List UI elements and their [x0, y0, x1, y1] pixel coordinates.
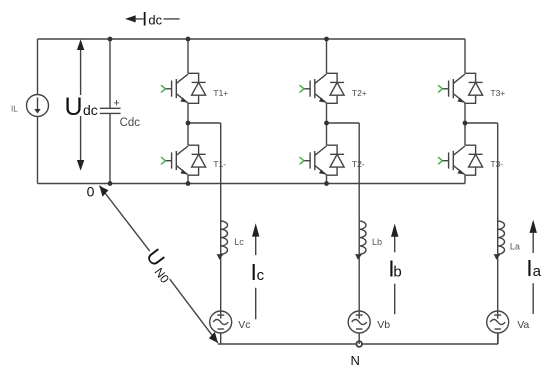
svg-text:T1+: T1+	[213, 88, 228, 98]
svg-text:T2+: T2+	[352, 88, 367, 98]
svg-text:La: La	[510, 241, 520, 251]
svg-text:Lc: Lc	[234, 237, 244, 247]
svg-text:T3+: T3+	[490, 88, 505, 98]
svg-text:0: 0	[87, 184, 95, 200]
svg-text:c: c	[257, 267, 265, 284]
svg-text:dc: dc	[148, 13, 162, 28]
svg-text:dc: dc	[83, 102, 98, 118]
svg-text:b: b	[393, 264, 401, 281]
svg-text:Lb: Lb	[372, 237, 382, 247]
svg-text:a: a	[533, 263, 542, 280]
svg-text:Vc: Vc	[238, 319, 250, 331]
svg-text:Va: Va	[517, 319, 529, 331]
svg-text:U: U	[65, 93, 83, 121]
svg-text:Vb: Vb	[377, 319, 390, 331]
svg-text:N: N	[351, 353, 360, 368]
svg-text:+: +	[113, 97, 119, 109]
svg-text:I: I	[142, 10, 147, 31]
svg-text:IL: IL	[11, 104, 18, 113]
svg-text:T1-: T1-	[213, 159, 226, 169]
svg-text:T3-: T3-	[490, 159, 503, 169]
svg-text:Cdc: Cdc	[120, 117, 141, 129]
svg-text:T2-: T2-	[352, 159, 365, 169]
